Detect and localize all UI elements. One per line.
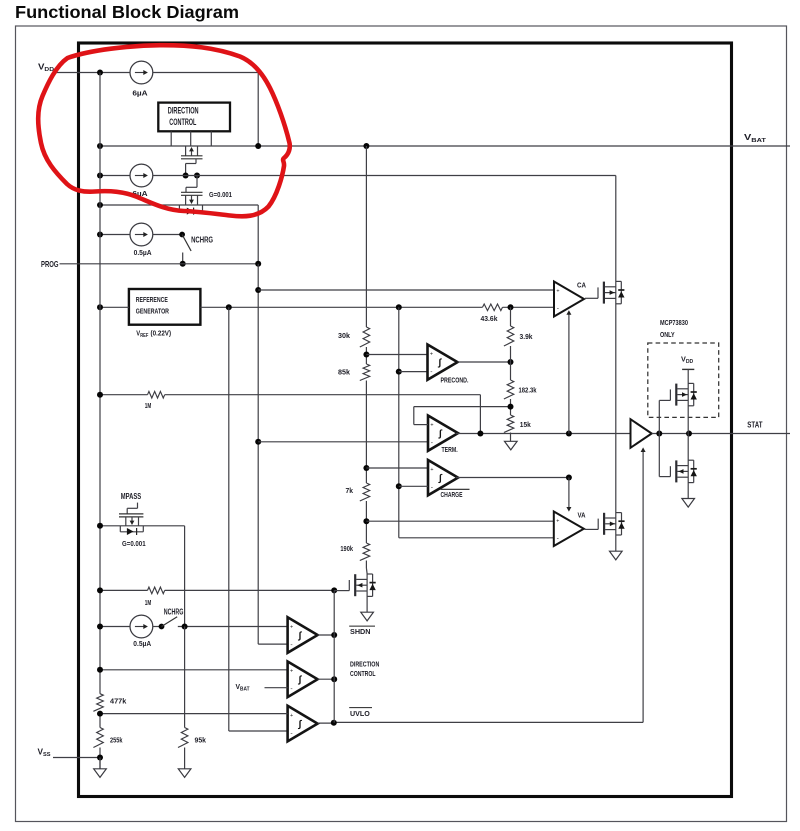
wire 1M line right [165,394,481,396]
wire tap to VA+ [366,520,553,522]
wire 1M lower right [165,589,335,591]
wire 3.9k-182k [510,346,512,380]
wire CHARGE- feed [399,485,428,487]
svg-text:CA: CA [577,280,586,289]
svg-text:PRECOND.: PRECOND. [441,376,469,385]
wire left rail bottom [99,748,101,769]
block DIRECTION CONTROL [158,103,230,132]
svg-text:CONTROL: CONTROL [350,669,376,678]
node 43.6k-3.9k [508,304,514,310]
wire lower rail (y=205) [100,204,258,206]
svg-text:VDD: VDD [38,62,54,73]
wire left rail x100 [99,73,101,694]
wire 85k down [365,381,367,484]
svg-text:255k: 255k [110,735,123,744]
svg-text:∫: ∫ [438,473,443,484]
node CA+ branch [255,287,261,293]
body diode D2 of Q2 [178,205,180,212]
svg-text:DIRECTION: DIRECTION [350,659,379,668]
wire tap to PRECOND+ [366,354,427,356]
resistor 7k [360,483,370,501]
resistor 85k [360,364,370,381]
node VSS [97,755,103,761]
op-amp PRECOND [428,345,458,380]
wire box lead center [190,131,192,146]
ground (SHDN NMOS) [361,612,374,621]
node x398-precond [396,369,402,375]
wire VSS to gnd [99,758,101,769]
wire PRECOND- feed [399,371,428,373]
node shdn-out [331,632,337,638]
wire 95k to gnd [184,748,186,769]
svg-text:+: + [430,467,433,473]
buffer U-STAT [631,419,652,448]
ground (15k) [505,441,518,450]
comparator UVLO [288,706,318,742]
wire out rail x334 [333,590,335,722]
node PROG-x258 [255,261,261,267]
node charge-out [566,475,572,481]
node main-x568 [566,431,572,437]
node stat-x659 [656,431,662,437]
wire 15k to gnd [510,433,512,442]
svg-text:+: + [556,518,559,524]
resistor 30k [360,327,370,347]
wire TERM+ feed [414,424,428,426]
wire 30k-85k [365,347,367,364]
svg-text:∫: ∫ [298,719,303,730]
node 477k-255k [97,711,103,717]
resistor 1M (upper) [148,391,165,398]
node VREF-x398 [396,304,402,310]
svg-text:REFERENCE: REFERENCE [136,296,168,304]
wire box lead right [210,131,212,146]
node shdn-gate [331,587,337,593]
node uvlo-out [331,720,337,726]
svg-text:CONTROL: CONTROL [169,117,196,127]
node VDD-left [97,70,103,76]
wire UVLO out [318,722,334,724]
ground (VA PMOS) [610,551,623,560]
wire CHARGE out [456,477,569,479]
svg-text:-: - [557,305,559,312]
svg-text:7k: 7k [346,486,354,495]
svg-text:190k: 190k [340,544,353,553]
resistor 255k [93,728,103,748]
svg-text:G=0.001: G=0.001 [122,541,146,548]
wire 190k down [365,561,367,569]
svg-text:6µA: 6µA [132,89,148,98]
svg-text:∫: ∫ [438,429,443,440]
svg-text:3.9k: 3.9k [520,332,534,341]
ground (VSS) [94,769,107,778]
wire SHDN NMOS stem [366,574,368,613]
svg-text:VBAT: VBAT [236,682,251,693]
comparator SHDN [288,617,318,653]
wire MPASS drop x184 [184,526,186,627]
IC boundary box [79,43,732,797]
wire VDD T-bar [682,368,694,370]
wire bias rail (y=234.5) [100,234,130,236]
svg-text:G=0.001: G=0.001 [209,192,232,199]
switch NCHRG (upper) pivot [179,232,185,238]
node MPASS-left [97,523,103,529]
svg-text:95k: 95k [195,735,207,744]
node dc-out [331,676,337,682]
node bias2-left [97,624,103,630]
transistor out PMOS [675,384,677,406]
wire DC out [318,678,335,680]
svg-text:Functional Block Diagram: Functional Block Diagram [15,2,239,22]
svg-text:-: - [430,368,432,375]
switch NCHRG (upper) blade [182,235,191,251]
node Q2 gate on mid rail [194,173,200,179]
node switch-PROG [180,261,186,267]
svg-text:-: - [290,641,292,648]
svg-text:43.6k: 43.6k [481,314,499,323]
wire TERM out / main line [456,433,631,435]
transistor MPASS [119,513,143,515]
node rail-left [97,143,103,149]
svg-text:+: + [430,423,433,429]
node 1M-left [97,392,103,398]
block REFERENCE GENERATOR [129,289,201,325]
node refgen-left-rail [97,304,103,310]
svg-text:VBAT: VBAT [744,133,767,144]
svg-text:∫: ∫ [298,630,303,641]
current source I1 6uA [130,61,153,84]
node TERM- branch [255,439,261,445]
svg-text:182.3k: 182.3k [519,385,538,394]
op-amp TERM [428,416,458,451]
body diode MPASS [119,526,121,532]
transistor SHDN NMOS [354,574,356,596]
ground (95k) [178,769,191,778]
wire VDD rail to corner [153,72,258,74]
svg-text:∫: ∫ [298,675,303,686]
wire mid rail (y=175.5) [100,175,130,177]
svg-text:15k: 15k [520,420,532,429]
wire MPASS gate lead [137,503,139,509]
wire PROG input [60,263,259,265]
node rail-x366 [363,143,369,149]
node va+ tap [363,518,369,524]
dashed box MCP73830 ONLY [648,343,719,417]
svg-text:+: + [556,288,559,294]
node dc-left [97,667,103,673]
node x184-bias2 [182,624,188,630]
node VREF-x228 [226,304,232,310]
node precond-out [508,359,514,365]
ground (output NMOS) [682,499,695,508]
arrow buffer enable [641,447,646,452]
current source I4 0.5uA [130,615,153,638]
svg-text:+: + [290,624,293,630]
node 1M-lower-left [97,587,103,593]
current source I3 0.5uA [130,223,153,246]
wire 1M drop to TERM out [479,395,481,434]
arrow VA enable [566,507,571,512]
node rail-x258 [255,143,261,149]
resistor 15k [504,415,514,432]
wire VA enable [568,478,570,509]
label UVLO overline [349,707,372,709]
switch NCHRG (lower) blade [162,617,178,627]
wire I3 to switch [153,234,182,236]
wire x398 corner to VA- [399,537,554,539]
wire 7k down [365,501,367,543]
wire 3.9k top [510,307,512,326]
wire UVLO- feed [229,730,288,732]
svg-text:TERM.: TERM. [442,445,458,454]
wire x366 top [365,146,367,327]
wire switch to node [178,626,288,628]
svg-text:-: - [431,484,433,491]
node stat-x689 [686,431,692,437]
svg-text:VA: VA [578,511,586,520]
svg-text:STAT: STAT [747,420,762,430]
wire out-PMOS gate stub [658,400,660,433]
arrow CA enable [566,310,571,315]
node x398-charge [396,483,402,489]
wire to TERM- (y=441.8) [258,441,428,443]
wire CA enable [568,314,570,434]
wire out-NMOS gate stub [658,434,660,477]
resistor 43.6k [483,304,503,311]
op-amp CA [554,282,584,317]
label CHARGE overline [441,488,470,490]
node 15k tap [508,404,514,410]
svg-text:-: - [557,535,559,542]
wire TERM feedback top [414,406,511,408]
svg-text:DIRECTION: DIRECTION [168,105,199,115]
svg-text:-: - [431,439,433,446]
svg-text:1M: 1M [145,401,152,410]
wire VREF drop x228 (to UVLO-) [228,307,230,731]
wire out stage stem [687,369,689,498]
resistor 190k [360,543,370,561]
svg-text:30k: 30k [338,331,351,340]
svg-text:SHDN: SHDN [350,627,371,636]
annotation red circle [38,45,290,216]
node 30k-85k tap [363,352,369,358]
transistor out NMOS [675,460,677,482]
wire 182k-15k [510,399,512,415]
svg-text:ONLY: ONLY [660,330,675,339]
wire UVLO loop bottom [334,721,643,723]
wire VBAT rail (y=146) [100,145,790,147]
switch NCHRG (lower) pivot [159,624,165,630]
wire to CA+ (y=290) [258,289,554,291]
wire 1M line (y=394.7) [100,394,148,396]
current source I2 6uA [130,164,153,187]
wire refgen left [100,306,129,308]
comparator DIRECTION CONTROL [288,662,318,698]
wire MPASS rail [100,525,185,527]
wire switch stub to PROG [182,253,184,264]
wire left rail lower [99,711,101,727]
svg-text:MPASS: MPASS [121,492,142,501]
wire tap to CHARGE+ [366,467,428,469]
wire buffer enable from UVLO [642,451,644,723]
wire VSS input [53,757,100,759]
wire 1M lower left [100,589,148,591]
wire 43.6k to CA- [503,306,555,308]
resistor 477k [93,694,103,712]
node charge+ tap [363,465,369,471]
wire box lead left [170,131,172,146]
svg-text:UVLO: UVLO [350,709,370,718]
svg-text:VSS: VSS [38,747,51,758]
op-amp VA [554,512,584,547]
svg-text:-: - [290,686,292,693]
svg-text:85k: 85k [338,368,351,377]
svg-text:0.5µA: 0.5µA [133,639,151,648]
node lower-rail-left [97,202,103,208]
op-amp CHARGE [428,460,458,495]
wire TERM feedback left [413,407,415,425]
svg-text:VREF: VREF [136,328,148,339]
node main-x480 [477,431,483,437]
wire buffer out [652,433,790,435]
wire lower rail drop to PROG [257,205,259,264]
svg-text:1M: 1M [145,598,152,607]
svg-text:CHARGE: CHARGE [441,490,463,499]
wire mid rail right [153,175,616,177]
svg-text:-: - [290,730,292,737]
svg-text:(0.22V): (0.22V) [151,330,172,337]
resistor 1M (lower) [148,587,165,594]
resistor 95k [178,728,188,748]
transistor CA PMOS [603,282,605,304]
transistor Q2 (pass PMOS lower) [196,176,198,188]
wire SHDN out [318,634,335,636]
wire VBAT to DC- [265,687,288,689]
wire I4 to switch [153,626,162,628]
svg-text:+: + [290,669,293,675]
svg-text:+: + [290,713,293,719]
svg-text:∫: ∫ [438,358,443,369]
svg-text:+: + [430,352,433,358]
node bias-rail-left [97,232,103,238]
transistor Q1 (pass PMOS upper) [185,146,187,156]
wire net A vertical x258 [257,264,259,644]
wire bias2 left [100,626,130,628]
resistor 182.3k [504,380,514,399]
wire VDD input [55,72,130,74]
wire net A corner to SHDN- [258,643,287,645]
transistor VA PMOS [603,513,605,535]
svg-text:GENERATOR: GENERATOR [136,308,169,316]
node Q1 gate on mid rail [183,173,189,179]
node mid-rail-left [97,173,103,179]
svg-text:MCP73830: MCP73830 [660,318,688,327]
resistor 3.9k [504,326,514,346]
label SHDN overline [349,625,375,627]
svg-text:VDD: VDD [681,354,693,365]
svg-text:477k: 477k [110,697,127,706]
wire DC+ feed [100,669,288,671]
wire VREF line (y=307.3) [200,306,482,308]
wire UVLO+ feed [100,713,288,715]
svg-text:0.5µA: 0.5µA [134,248,152,257]
wire x398 vertical [398,307,400,538]
svg-text:NCHRG: NCHRG [164,608,184,617]
wire PRECOND out [458,361,511,363]
wire x616 stem [615,176,617,552]
svg-text:PROG: PROG [41,259,59,269]
svg-text:NCHRG: NCHRG [191,236,213,245]
wire 95k top [184,627,186,728]
wire VDD rail drop [257,73,259,147]
